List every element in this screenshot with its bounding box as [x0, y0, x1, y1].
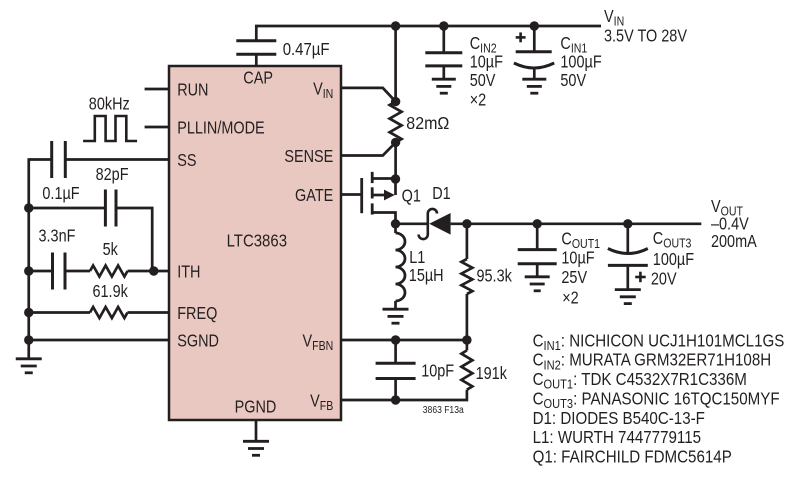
pin label VFB — [310, 392, 333, 413]
node dot VFBN 191k — [462, 335, 471, 344]
inductor L1 bottom stub — [394, 301, 397, 309]
pin label SS — [177, 152, 196, 170]
wire 191k to VFB row — [341, 390, 467, 400]
label 95.3k — [477, 267, 512, 285]
capacitor COUT3 stub — [626, 224, 629, 253]
parts list COUT3 — [533, 390, 780, 412]
label 61.9k — [93, 283, 128, 301]
wire cap to left rail corner — [29, 158, 52, 161]
transistor Q1 body lead — [372, 194, 385, 197]
svg-text:20V: 20V — [651, 271, 677, 289]
svg-text:ITH: ITH — [177, 263, 200, 281]
wire D1 to output rail — [451, 222, 467, 225]
label CIN2 x2 — [470, 91, 487, 109]
parts list COUT1 — [533, 370, 747, 392]
capacitor CIN1 stub — [533, 26, 536, 52]
transistor Q1 body arrow — [384, 190, 395, 201]
node dot rail CIN2 — [439, 21, 448, 30]
capacitor CIN1 curved plate — [514, 63, 554, 68]
ground symbol CIN1 — [522, 79, 546, 93]
resistor 191k upper wire — [466, 340, 469, 350]
wire 3.3nF to 5k — [65, 270, 90, 273]
label D1 — [432, 185, 451, 203]
diode D1 triangle — [429, 213, 450, 235]
label CIN1 — [560, 35, 587, 56]
ground symbol COUT3 — [615, 290, 641, 304]
resistor 61.9k — [90, 307, 128, 318]
svg-text:LTC3863: LTC3863 — [227, 232, 287, 251]
node dot VFBN 10pF — [391, 335, 400, 344]
capacitor COUT3 lower stub — [626, 265, 629, 289]
capacitor 10pF stub bottom — [394, 379, 397, 401]
label 10pF — [421, 363, 454, 381]
parts list CIN2 — [533, 351, 772, 373]
svg-text:SGND: SGND — [177, 332, 219, 350]
label VIN — [604, 8, 624, 29]
wire VFBN row — [341, 339, 467, 342]
svg-text:100µF: 100µF — [653, 251, 695, 269]
node dot switch node — [391, 219, 400, 228]
label -0.4V — [711, 215, 749, 233]
label COUT3 20V — [651, 271, 677, 289]
transistor Q1 drain lead — [372, 213, 395, 224]
transistor Q1 body-source link — [394, 179, 397, 195]
capacitor 10pF stub top — [394, 340, 397, 363]
capacitor COUT3 curved plate — [608, 249, 648, 254]
label 3.5V TO 28V — [604, 28, 687, 46]
capacitor COUT1 stub — [536, 224, 539, 250]
wire 5k to ITH node — [128, 270, 170, 273]
wire ITH row left — [29, 270, 53, 273]
parts list L1 — [533, 428, 701, 447]
wire 82pF right + down to ITH node — [116, 208, 152, 271]
node dot rail-SGND — [24, 335, 33, 344]
resistor 82mohm — [390, 102, 402, 143]
label VOUT — [711, 198, 743, 219]
svg-text:L1: L1 — [409, 249, 425, 267]
svg-text:PLLIN/MODE: PLLIN/MODE — [177, 119, 264, 137]
svg-text:0.47µF: 0.47µF — [283, 40, 330, 59]
ground symbol L1 — [383, 309, 409, 323]
svg-text:Q1: FAIRCHILD FDMC5614P: Q1: FAIRCHILD FDMC5614P — [533, 448, 732, 467]
svg-text:CAP: CAP — [243, 69, 273, 87]
svg-text:82pF: 82pF — [96, 166, 129, 184]
wire 82pF row left — [29, 207, 106, 210]
clock source 80kHz square wave symbol — [83, 116, 137, 141]
transistor Q1 source lead — [372, 177, 395, 180]
capacitor CIN2 — [425, 53, 462, 66]
node dot rail-ITH — [24, 266, 33, 275]
svg-text:191k: 191k — [476, 365, 507, 383]
capacitor COUT1 lower stub — [536, 264, 539, 277]
capacitor CIN2 lower stub — [442, 66, 445, 79]
svg-text:D1: DIODES B540C-13-F: D1: DIODES B540C-13-F — [533, 409, 705, 428]
node dot Q1 source — [391, 174, 400, 183]
label 200mA — [711, 233, 757, 251]
label CIN1 50V — [560, 72, 586, 90]
capacitor CIN1 top plate — [516, 50, 552, 53]
parts list CIN1 — [533, 331, 785, 353]
node dot rail-FREQ — [24, 308, 33, 317]
label 191k — [476, 365, 507, 383]
wire cap to CAP pin — [255, 54, 258, 66]
resistor 95.3k — [461, 259, 472, 294]
pin label VIN — [313, 80, 333, 101]
label COUT1 25V — [561, 269, 587, 287]
svg-text:200mA: 200mA — [711, 233, 757, 251]
label Q1 — [402, 187, 421, 205]
pin label RUN — [177, 81, 208, 99]
label 80kHz — [89, 95, 130, 113]
capacitor COUT1 — [518, 250, 557, 264]
svg-text:61.9k: 61.9k — [93, 283, 128, 301]
IC name LTC3863 — [227, 232, 287, 251]
node dot rail to sense resistor — [391, 21, 400, 30]
label 82mohm — [406, 114, 449, 134]
label COUT1 10uF — [561, 249, 594, 267]
node dot sense top — [391, 97, 400, 106]
pin label SGND — [177, 332, 219, 350]
label CIN2 50V — [470, 72, 496, 90]
svg-text:–0.4V: –0.4V — [711, 215, 749, 233]
wire sense to Q1 source — [394, 142, 397, 179]
svg-text:CIN1: NICHICON UCJ1H101MCL1GS: CIN1: NICHICON UCJ1H101MCL1GS — [533, 331, 785, 353]
svg-text:0.1µF: 0.1µF — [42, 185, 79, 203]
svg-text:3863 F13a: 3863 F13a — [423, 403, 465, 415]
svg-text:SENSE: SENSE — [284, 148, 333, 166]
svg-text:SS: SS — [177, 152, 196, 170]
svg-text:10µF: 10µF — [561, 249, 594, 267]
svg-text:GATE: GATE — [295, 187, 333, 205]
node dot VFB 10pF — [391, 395, 400, 404]
svg-text:15µH: 15µH — [409, 267, 444, 285]
capacitor CIN1 lower stub — [533, 68, 536, 79]
resistor 95.3k lower wire — [466, 294, 469, 340]
label CIN1 100uF — [560, 53, 602, 71]
wire SS pin to cap — [65, 158, 169, 161]
label 5k — [103, 241, 118, 259]
wire VIN pin — [341, 88, 396, 102]
wire SENSE pin — [341, 142, 396, 155]
svg-text:5k: 5k — [103, 241, 118, 259]
capacitor 0.47uF — [236, 41, 276, 55]
pin label FREQ — [177, 305, 217, 323]
svg-text:×2: ×2 — [470, 91, 487, 109]
ground symbol left rail — [16, 359, 42, 373]
svg-text:×2: ×2 — [562, 289, 579, 307]
parts list D1 — [533, 409, 705, 428]
svg-text:10µF: 10µF — [470, 53, 503, 71]
transistor Q1 gate bar — [360, 178, 363, 213]
op-amp U1 LTC3863 IC body — [169, 66, 341, 420]
label CIN2 10uF — [470, 53, 503, 71]
svg-text:PGND: PGND — [235, 398, 277, 416]
capacitor COUT3 bottom plate — [608, 264, 648, 267]
capacitor 10pF — [376, 363, 416, 378]
svg-text:10pF: 10pF — [421, 363, 454, 381]
wire PGND stub — [255, 420, 258, 441]
node dot ITH junction — [149, 266, 158, 275]
wire 61.9k to FREQ pin — [128, 311, 170, 314]
svg-text:80kHz: 80kHz — [89, 95, 130, 113]
wire RUN pin stub — [145, 88, 169, 91]
label COUT3 — [653, 230, 692, 251]
label 0.1uF — [42, 185, 79, 203]
wire switch node to D1 — [396, 222, 428, 225]
svg-text:Q1: Q1 — [402, 187, 421, 205]
label COUT3 100uF — [653, 251, 695, 269]
label L1 — [409, 249, 425, 267]
label 3.3nF — [39, 228, 76, 246]
node dot rail CIN1 — [530, 21, 539, 30]
pin label PGND — [235, 398, 277, 416]
node dot VOUT COUT1 — [533, 219, 542, 228]
svg-text:100µF: 100µF — [560, 53, 602, 71]
ground symbol CIN2 — [432, 79, 456, 93]
label COUT1 x2 — [562, 289, 579, 307]
svg-text:3.3nF: 3.3nF — [39, 228, 76, 246]
resistor 5k — [90, 266, 128, 277]
svg-text:82mΩ: 82mΩ — [406, 114, 449, 134]
svg-text:50V: 50V — [470, 72, 496, 90]
wire PLLIN/MODE pin stub — [145, 126, 169, 129]
svg-text:95.3k: 95.3k — [477, 267, 512, 285]
capacitor 0.1uF on SS line — [52, 141, 66, 178]
pin label ITH — [177, 263, 200, 281]
label CIN2 — [470, 35, 497, 56]
wire CAP pin corner to top rail — [256, 26, 601, 41]
resistor 191k — [461, 350, 472, 389]
pin label CAP — [243, 69, 273, 87]
node dot rail-82pF — [24, 203, 33, 212]
wire FREQ row left — [29, 311, 90, 314]
label COUT1 — [561, 231, 600, 252]
svg-text:D1: D1 — [432, 185, 451, 203]
inductor L1 coil — [396, 233, 406, 301]
pin label PLLIN/MODE — [177, 119, 264, 137]
polarity plus CIN1 — [516, 32, 526, 42]
ground symbol COUT1 — [525, 277, 550, 291]
node dot VOUT-95.3k — [462, 219, 471, 228]
node dot sense bottom — [391, 138, 400, 147]
parts list Q1 — [533, 448, 732, 467]
transistor Q1 channel segments — [371, 172, 374, 215]
svg-text:FREQ: FREQ — [177, 305, 217, 323]
svg-text:RUN: RUN — [177, 81, 208, 99]
polarity plus COUT3 — [635, 272, 646, 283]
diode D1 schottky cathode — [419, 209, 437, 239]
pin label SENSE — [284, 148, 333, 166]
figure label 3863 F13a — [423, 403, 465, 415]
wire SGND row — [29, 339, 169, 342]
transistor Q1 gate wire — [341, 193, 362, 196]
svg-text:25V: 25V — [561, 269, 587, 287]
wire VOUT rail — [467, 222, 701, 225]
ground symbol PGND — [243, 441, 269, 455]
resistor 95.3k upper wire — [466, 224, 469, 259]
label 0.47uF — [283, 40, 330, 59]
capacitor 3.3nF — [53, 253, 66, 290]
pin label VFBN — [303, 332, 334, 353]
svg-text:50V: 50V — [560, 72, 586, 90]
label 82pF — [96, 166, 129, 184]
svg-text:L1: WURTH 7447779115: L1: WURTH 7447779115 — [533, 428, 701, 447]
pin label GATE — [295, 187, 333, 205]
node dot VOUT COUT3 — [623, 219, 632, 228]
label 15uH — [409, 267, 444, 285]
capacitor CIN2 stub — [442, 26, 445, 53]
capacitor 82pF — [105, 190, 116, 227]
wire rail down to sense resistor — [394, 26, 397, 102]
inductor L1 top stub — [394, 224, 397, 233]
svg-text:3.5V TO 28V: 3.5V TO 28V — [604, 28, 687, 46]
ground rail (left vertical) — [27, 158, 30, 359]
